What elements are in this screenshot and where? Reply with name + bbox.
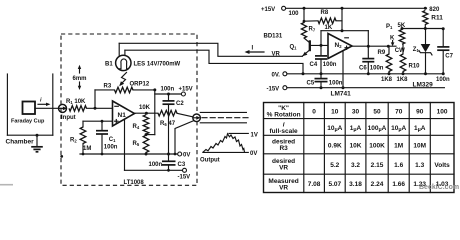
output coax lines <box>200 112 251 122</box>
capacitor C3 <box>149 154 186 172</box>
current arrow i <box>38 98 51 107</box>
svg-text:1.3: 1.3 <box>415 162 424 169</box>
capacitor C5 <box>307 74 343 89</box>
internal 0V rail <box>80 153 178 156</box>
current arrow I <box>245 46 265 55</box>
output waveform graph <box>200 132 258 163</box>
svg-text:10M: 10M <box>413 143 426 150</box>
svg-text:10: 10 <box>331 109 339 116</box>
svg-text:1M: 1M <box>394 143 403 150</box>
ground <box>31 134 43 152</box>
P1 wiper arrow K <box>390 35 405 54</box>
wire R6 to output terminal <box>177 113 193 117</box>
Faraday Cup <box>11 102 45 125</box>
svg-text:full-scale: full-scale <box>270 128 299 135</box>
svg-text:0.9K: 0.9K <box>328 143 342 150</box>
svg-text:70: 70 <box>395 109 403 116</box>
svg-text:7.08: 7.08 <box>308 181 321 188</box>
+15V terminal top <box>261 6 286 13</box>
N2 output wire <box>352 45 396 48</box>
T-node wire to feedback <box>146 90 155 135</box>
svg-text:0: 0 <box>312 109 316 116</box>
svg-text:3.2: 3.2 <box>351 162 360 169</box>
-15V terminal and rail <box>267 86 445 93</box>
op-amp N2 LM741 <box>328 34 352 59</box>
N1 output wire <box>135 105 159 115</box>
+15V top rail <box>286 7 427 10</box>
resistor R2 1M <box>70 121 91 154</box>
wire R3 feedback right leg <box>133 88 156 91</box>
resistor R4 <box>133 115 149 136</box>
svg-text:100μA: 100μA <box>368 125 387 133</box>
svg-text:10K: 10K <box>350 143 362 150</box>
lamp top leads <box>119 43 125 56</box>
resistor R8 1K <box>304 10 342 31</box>
feedback frame verticals <box>321 8 368 46</box>
light arrow from lamp to LDR <box>119 73 126 87</box>
svg-text:100: 100 <box>437 109 448 116</box>
resistor R1 <box>66 99 87 111</box>
svg-text:3.18: 3.18 <box>349 181 362 188</box>
resistor R6 47 <box>158 110 177 127</box>
0V terminal and rail <box>272 72 445 79</box>
svg-text:1.6: 1.6 <box>394 162 403 169</box>
wire R3 feedback left leg <box>95 90 115 108</box>
lamp B1 <box>105 55 181 70</box>
resistor R11 820 <box>423 7 444 28</box>
resistor R10 1K8 <box>397 44 421 83</box>
svg-text:Volts: Volts <box>434 162 450 169</box>
svg-text:100K: 100K <box>369 143 385 150</box>
wire N1 non-inverting input <box>83 120 113 123</box>
input feedthrough terminal <box>59 104 76 121</box>
-15V wire and terminal left <box>125 168 191 180</box>
table row i full-scale <box>270 122 426 136</box>
calibration table <box>264 103 455 193</box>
0V terminal left <box>178 152 191 158</box>
table row Measured VR <box>268 178 448 192</box>
output shield ground diagonal <box>175 120 194 154</box>
svg-text:1μA: 1μA <box>350 125 362 133</box>
table row desired VR <box>272 158 450 172</box>
svg-text:VR: VR <box>279 165 288 172</box>
wire cup to input <box>35 107 59 109</box>
capacitor C4 <box>310 45 337 73</box>
wire R1 to N1 inverting input <box>87 107 113 110</box>
svg-text:5.2: 5.2 <box>330 162 339 169</box>
capacitor C2 <box>163 94 185 154</box>
svg-text:BeckIC.com: BeckIC.com <box>419 184 459 191</box>
svg-text:5.07: 5.07 <box>328 181 341 188</box>
svg-text:% Rotation: % Rotation <box>267 112 301 119</box>
svg-text:1μA: 1μA <box>414 125 426 133</box>
svg-text:10μA: 10μA <box>391 125 406 133</box>
svg-text:2.24: 2.24 <box>371 181 384 188</box>
chamber <box>6 74 53 146</box>
svg-text:2.15: 2.15 <box>371 162 384 169</box>
transistor Q1 BD131 <box>264 34 329 57</box>
resistor R3 (ORP12 LDR) <box>104 82 150 93</box>
svg-text:R3: R3 <box>279 145 288 152</box>
svg-text:90: 90 <box>416 109 424 116</box>
op-amp N1 <box>113 101 135 126</box>
svg-text:1.66: 1.66 <box>392 181 405 188</box>
svg-text:50: 50 <box>373 109 381 116</box>
resistor R9 1K8 <box>378 46 393 83</box>
N2 negative supply stub <box>342 51 345 89</box>
resistor R7 100 <box>289 8 316 38</box>
dashed housing box LT1008 <box>60 34 197 186</box>
+15V supply wire upper <box>155 87 193 96</box>
reference node wire <box>402 27 445 30</box>
capacitor C6 <box>359 46 384 74</box>
6mm spacing annotation <box>73 65 87 90</box>
wire lamp return to 0V <box>125 50 305 75</box>
output feedthrough terminal <box>193 114 201 122</box>
svg-text:VR: VR <box>279 185 288 192</box>
svg-text:30: 30 <box>352 109 360 116</box>
resistor R5 <box>133 135 149 154</box>
table header row <box>267 105 448 119</box>
capacitor C7 <box>436 29 454 83</box>
capacitor C1 <box>96 121 118 154</box>
table row desired R3 <box>272 139 426 153</box>
potentiometer P1 5K <box>386 23 406 44</box>
wire lamp to Q1 emitter (VR) <box>119 43 302 56</box>
svg-text:10μA: 10μA <box>327 125 342 133</box>
zener diode Z1 LM329 <box>413 29 432 74</box>
N1 negative supply stub <box>124 119 126 170</box>
